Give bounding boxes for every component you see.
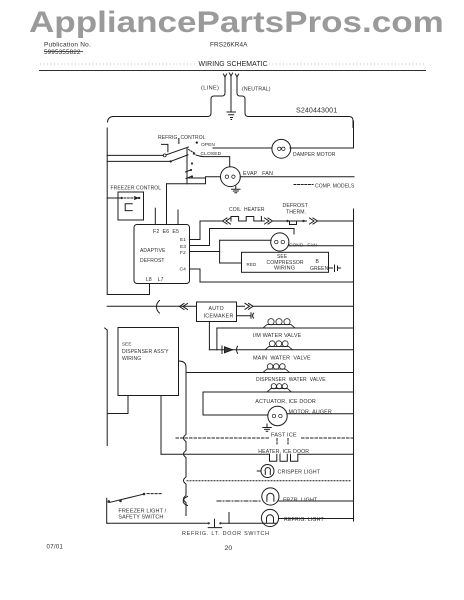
node open contact <box>196 141 198 143</box>
damper motor circle <box>272 139 291 158</box>
node door switch <box>208 522 210 524</box>
svg-text:5995355822: 5995355822 <box>44 49 81 56</box>
svg-text:FRS26KR4A: FRS26KR4A <box>210 42 248 49</box>
right bus vertical <box>353 209 355 521</box>
switch dashed freezer control <box>124 197 136 199</box>
svg-text:FAST ICE: FAST ICE <box>271 433 297 439</box>
switch tick b <box>186 170 191 172</box>
svg-text:THERM.: THERM. <box>286 209 306 215</box>
wire L8 drop <box>149 284 151 295</box>
svg-text:S240443001: S240443001 <box>296 107 337 115</box>
wire crisper stub <box>257 470 261 472</box>
wire C4 rung to bus <box>200 281 354 283</box>
wire motor auger left lead <box>203 414 268 416</box>
wire actuator rung <box>203 391 353 393</box>
refrig light lamp <box>261 509 278 526</box>
wire dispenser wavy feed <box>179 361 187 516</box>
cond fan winding glyph <box>275 240 285 243</box>
connector main valve diode <box>221 346 223 354</box>
connector chevrons icemaker <box>180 304 188 310</box>
wire actuator to motor riser <box>202 392 204 415</box>
node contact c <box>191 175 193 177</box>
wire fast ice dashed left <box>176 437 269 439</box>
plug prong neutral-mid <box>229 73 232 111</box>
svg-text:GREEN: GREEN <box>310 266 329 272</box>
connector paren icemaker <box>156 301 159 314</box>
freezer control inner sensor <box>125 204 132 211</box>
node safety sw a <box>108 500 111 503</box>
svg-text:COIL HEATER: COIL HEATER <box>229 207 265 213</box>
freezer control box <box>118 192 144 220</box>
svg-text:DISPENSER ASS'Y: DISPENSER ASS'Y <box>122 349 169 355</box>
ground evap fan <box>232 186 240 192</box>
node safety sw b <box>119 500 122 503</box>
adaptive defrost box <box>134 225 190 284</box>
switch blade pole2 <box>171 155 188 162</box>
svg-text:WIRING: WIRING <box>274 266 295 272</box>
wire neutral-side down to horizontal <box>237 85 353 128</box>
wire motor auger right lead <box>287 413 353 415</box>
wire main valve rung <box>209 349 353 351</box>
svg-text:07/01: 07/01 <box>47 544 64 551</box>
svg-text:CLOSED: CLOSED <box>201 151 222 157</box>
watermark AppliancePartsPros.com <box>29 6 444 40</box>
wire damper to bus <box>290 121 354 148</box>
svg-text:DISPENSER WATER VALVE: DISPENSER WATER VALVE <box>256 377 326 383</box>
svg-text:SEE: SEE <box>122 342 132 347</box>
svg-text:COND. FAN: COND. FAN <box>289 242 317 247</box>
evap fan winding glyph <box>225 175 235 178</box>
dispenser assy box <box>118 328 179 396</box>
door switch bars <box>208 513 229 528</box>
svg-text:FREEZER LIGHT /: FREEZER LIGHT / <box>118 509 166 515</box>
heater element ice door <box>270 454 298 461</box>
wire safety stub <box>147 493 163 495</box>
crisper lamp filament <box>265 467 270 474</box>
node freezer sw left <box>121 197 123 199</box>
motor auger circle <box>268 406 287 425</box>
wire compressor feed <box>220 262 242 264</box>
wire line-side down to horizontal <box>113 85 225 117</box>
header rule <box>39 70 426 72</box>
wire defrost pin E5 vertical <box>177 210 179 225</box>
svg-text:REFRIG. CONTROL: REFRIG. CONTROL <box>158 135 206 141</box>
wire refrig pole 2 <box>107 160 171 162</box>
wire dispenser box drop heater <box>160 396 162 455</box>
wire C4 riser <box>199 269 201 282</box>
wire cond fan left lead <box>220 239 272 241</box>
svg-text:DEFROST: DEFROST <box>283 203 309 209</box>
defrost thermostat bracket <box>290 221 297 225</box>
coil main water valve <box>265 346 293 349</box>
wire im valve rung <box>217 327 354 329</box>
svg-text:FRZR. LIGHT: FRZR. LIGHT <box>283 498 318 504</box>
svg-text:(NEUTRAL): (NEUTRAL) <box>242 87 271 93</box>
wire E1 riser to heater rung <box>199 221 201 240</box>
wire E2 riser <box>209 229 211 246</box>
cond fan circle <box>271 233 289 251</box>
node therm right <box>302 220 304 222</box>
wire frzr dashdot <box>217 500 262 502</box>
ground symbol main <box>227 112 236 120</box>
coil im water valve <box>263 325 295 328</box>
wire coil heater rung left <box>200 220 222 222</box>
connector chevrons right <box>265 218 273 224</box>
svg-text:OPEN: OPEN <box>201 142 215 148</box>
wire E3 stub <box>190 251 220 253</box>
wire freezer control branch <box>107 197 120 199</box>
svg-text:RED: RED <box>247 262 257 267</box>
crisper light lamp <box>261 465 274 478</box>
heater element coil heater <box>231 217 264 222</box>
connector im valve <box>209 322 217 350</box>
wire icemaker rung right <box>237 305 354 307</box>
svg-text:DEFROST: DEFROST <box>140 258 165 264</box>
evap fan circle <box>221 167 241 187</box>
wire fast ice dashed right <box>302 437 354 439</box>
node refrig pole dot <box>163 154 166 157</box>
plug prong right <box>235 74 238 85</box>
wire green out <box>329 267 333 269</box>
wire rung 228 <box>210 229 295 235</box>
svg-text:COMP. MODELS: COMP. MODELS <box>315 184 355 190</box>
wire L8 to bus <box>108 294 150 296</box>
connector chevrons left <box>223 218 231 224</box>
freezer safety switch blade <box>110 494 143 502</box>
svg-text:(LINE): (LINE) <box>201 86 219 92</box>
plug prong line <box>223 74 226 85</box>
connector green plug <box>335 265 341 272</box>
svg-text:I/M WATER VALVE: I/M WATER VALVE <box>253 333 302 339</box>
svg-text:REFRIG. LIGHT: REFRIG. LIGHT <box>284 517 325 523</box>
frzr light lamp <box>262 488 279 505</box>
svg-text:ACTUATOR, ICE DOOR: ACTUATOR, ICE DOOR <box>255 399 316 405</box>
svg-text:MOTOR, AUGER: MOTOR, AUGER <box>289 409 332 415</box>
wire refrig lamp right lead <box>279 518 354 520</box>
wire defrost pin E6 vertical <box>166 184 168 225</box>
header dotted leader right <box>269 63 426 65</box>
svg-text:C4: C4 <box>180 267 187 273</box>
ground motor auger <box>263 424 271 431</box>
svg-text:FREEZER CONTROL: FREEZER CONTROL <box>111 186 162 192</box>
auto icemaker box <box>197 302 237 322</box>
wire dispenser valve rung <box>186 372 353 374</box>
coil actuator ice door <box>267 389 292 392</box>
wire hook to left bus <box>108 117 114 123</box>
wire crisper dotted rung <box>187 480 350 482</box>
compressor box <box>242 252 329 272</box>
wire evap branch <box>167 177 221 184</box>
switch dashed closed position <box>189 150 194 153</box>
header dotted leader left <box>40 63 196 65</box>
svg-text:E3: E3 <box>180 244 186 250</box>
svg-text:B: B <box>316 259 320 265</box>
wire refrig control pole <box>107 154 163 156</box>
wire C4 stub <box>190 268 201 270</box>
svg-text:AUTO: AUTO <box>209 306 225 312</box>
coil dispenser water valve <box>263 369 290 372</box>
connector paren frzr <box>183 497 187 506</box>
wire dashed comp models <box>294 184 313 186</box>
switch tick c <box>186 177 191 179</box>
svg-text:HEATER, ICE DOOR: HEATER, ICE DOOR <box>258 449 309 455</box>
node closed contact <box>193 152 195 154</box>
wire evap rung to right <box>240 176 354 178</box>
svg-text:ADAPTIVE: ADAPTIVE <box>140 248 166 254</box>
connector chevrons therm <box>310 218 318 224</box>
frzr lamp filament <box>267 493 274 501</box>
svg-text:CRISPER LIGHT: CRISPER LIGHT <box>278 470 321 476</box>
motor auger winding glyph <box>272 414 282 417</box>
node pole2 dot <box>170 160 172 162</box>
wire defrost pin F2 vertical <box>154 208 156 224</box>
wire cond fan right lead <box>289 245 354 247</box>
wire E2 stub <box>190 245 210 247</box>
svg-text:REFRIG. LT. DOOR SWITCH: REFRIG. LT. DOOR SWITCH <box>182 531 270 537</box>
svg-text:WIRING SCHEMATIC: WIRING SCHEMATIC <box>199 61 268 68</box>
refrig lamp filament <box>267 515 274 523</box>
wire dispenser box drop left <box>108 396 129 414</box>
svg-text:F2: F2 <box>180 250 186 256</box>
svg-text:EVAP FAN: EVAP FAN <box>243 171 273 177</box>
node contact a <box>191 162 193 164</box>
svg-text:F2 E6 E5: F2 E6 E5 <box>153 229 179 235</box>
node therm left <box>286 220 288 222</box>
svg-text:MAIN WATER VALVE: MAIN WATER VALVE <box>253 356 311 362</box>
left bus vertical <box>105 128 108 523</box>
switch blade refrig control <box>166 147 188 155</box>
damper motor winding glyph <box>278 147 285 150</box>
wire therm to bus <box>318 220 354 222</box>
svg-text:L8 L7: L8 L7 <box>146 277 164 283</box>
node freezer sw right <box>138 197 140 199</box>
publication number strikethrough <box>44 51 83 53</box>
svg-text:E1: E1 <box>180 237 186 243</box>
svg-text:SAFETY SWITCH: SAFETY SWITCH <box>118 515 163 521</box>
wire heater to therm <box>273 220 307 222</box>
svg-text:Publication No.: Publication No. <box>44 42 91 49</box>
connector chevrons icemaker right <box>245 303 253 309</box>
svg-text:ICEMAKER: ICEMAKER <box>204 313 234 319</box>
wire heater ice door rung <box>161 453 353 455</box>
node contact b <box>190 169 192 171</box>
wire riser cond fan <box>219 240 221 263</box>
wire frzr right lead <box>279 500 354 502</box>
svg-text:20: 20 <box>225 545 233 552</box>
wire E1 stub <box>190 239 201 241</box>
wire switch vertical <box>186 148 188 184</box>
svg-text:WIRING: WIRING <box>122 356 141 362</box>
wire icemaker rung left <box>107 305 196 307</box>
wire icemaker drop <box>237 313 254 319</box>
svg-text:DAMPER MOTOR: DAMPER MOTOR <box>293 152 336 158</box>
wire damper rung <box>213 147 272 149</box>
wire bottom rung <box>107 522 277 524</box>
